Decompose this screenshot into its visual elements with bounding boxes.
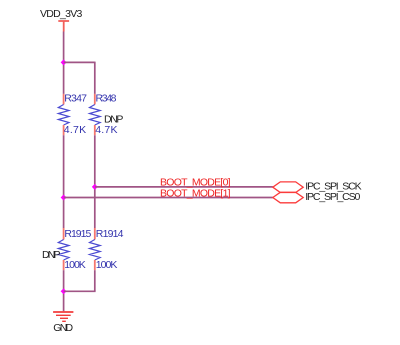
power symbol VDD_3V3 (58, 21, 69, 32)
svg-text:GND: GND (53, 322, 73, 334)
wire R348 down through junction B to R1914 (94, 135, 96, 228)
svg-text:DNP: DNP (42, 249, 61, 261)
wire BOOT_MODE[1] (64, 197, 273, 199)
resistor R1915 (58, 228, 91, 271)
wire junction D to right branch bottom (64, 290, 96, 292)
wire R1914 down to junction D (94, 270, 96, 291)
svg-text:DNP: DNP (104, 113, 123, 125)
junction B (92, 184, 98, 190)
svg-text:R1914: R1914 (96, 228, 124, 240)
off-page connector IPC_SPI_CS0 (273, 192, 303, 203)
junction D (61, 288, 67, 294)
svg-text:R347: R347 (64, 92, 87, 104)
resistor R348 (90, 92, 118, 136)
junction C (61, 195, 67, 201)
wire R1915 down to ground (63, 270, 65, 311)
svg-text:R348: R348 (96, 92, 117, 104)
off-page connector IPC_SPI_SCK (273, 182, 303, 193)
wire from power to junction A (63, 32, 65, 94)
svg-text:4.7K: 4.7K (95, 124, 117, 136)
wire junction A to right branch (64, 61, 95, 63)
svg-text:BOOT_MODE[1]: BOOT_MODE[1] (160, 188, 231, 200)
svg-text:R1915: R1915 (64, 228, 91, 240)
svg-text:IPC_SPI_CS0: IPC_SPI_CS0 (305, 191, 360, 203)
wire right branch down to R348 (94, 62, 96, 94)
svg-text:VDD_3V3: VDD_3V3 (40, 8, 83, 20)
wire BOOT_MODE[0] (95, 186, 273, 188)
junction A (61, 59, 67, 65)
wire R347 down to junction C (63, 135, 65, 228)
resistor R347 (58, 92, 87, 136)
ground (53, 312, 73, 321)
svg-text:100K: 100K (96, 259, 118, 271)
svg-text:100K: 100K (64, 259, 86, 271)
resistor R1914 (90, 228, 124, 271)
svg-text:4.7K: 4.7K (64, 124, 86, 136)
